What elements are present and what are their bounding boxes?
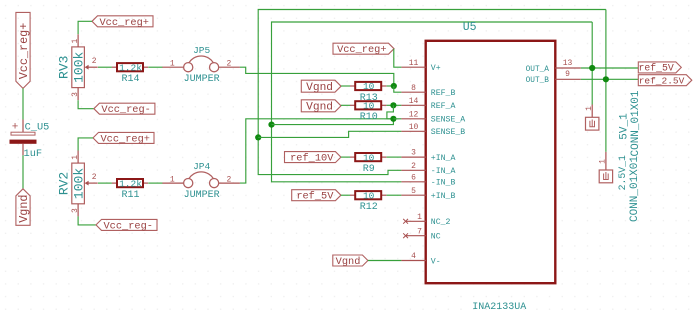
svg-text:14: 14 xyxy=(409,97,419,106)
pin 14 REF_A xyxy=(401,104,426,106)
node junction REF_B xyxy=(391,83,397,89)
node junction OUT_A xyxy=(589,65,595,71)
node junction SENSE_B tap xyxy=(255,134,261,140)
svg-text:100k: 100k xyxy=(71,168,86,199)
svg-text:3: 3 xyxy=(71,208,80,213)
wire xyxy=(22,155,24,189)
svg-text:REF_B: REF_B xyxy=(431,89,456,98)
wire xyxy=(22,88,24,119)
svg-text:R14: R14 xyxy=(121,74,139,85)
wire xyxy=(394,49,402,67)
wire xyxy=(78,100,94,109)
svg-text:12: 12 xyxy=(409,110,419,119)
wire (JP4 pin2 up to SENSE_A net) xyxy=(240,119,394,183)
svg-text:JP5: JP5 xyxy=(193,45,210,56)
connector 5V_1 CONN_01X01 xyxy=(591,105,593,120)
svg-text:7: 7 xyxy=(417,227,422,236)
pin 5 +IN_B xyxy=(401,194,426,196)
svg-text:R11: R11 xyxy=(121,190,139,201)
pin 11 V+ xyxy=(401,66,426,68)
wire xyxy=(368,260,402,262)
wire xyxy=(387,156,402,158)
svg-text:+IN_B: +IN_B xyxy=(431,192,456,201)
svg-text:1: 1 xyxy=(170,176,175,185)
wire to SENSE_B xyxy=(258,131,401,137)
svg-text:5V_1: 5V_1 xyxy=(619,113,631,140)
wire OUT_B to ref_2.5V xyxy=(581,78,639,80)
svg-text:RV2: RV2 xyxy=(57,172,72,195)
svg-text:1uF: 1uF xyxy=(24,148,43,160)
connector 2.5V_1 CONN_01X01 xyxy=(605,152,607,172)
wire xyxy=(387,194,402,196)
wire xyxy=(98,182,112,184)
wire OUT_B net xyxy=(258,10,606,175)
pin 7 NC (no connect) xyxy=(406,235,426,237)
wire xyxy=(148,182,162,184)
svg-text:Vcc_reg+: Vcc_reg+ xyxy=(337,44,386,56)
wire xyxy=(387,85,394,87)
global label Vgnd (V-) xyxy=(333,255,368,266)
pin 8 REF_B xyxy=(401,91,426,93)
global label Vcc_reg+ (vertical, far left) xyxy=(16,12,30,88)
svg-text:NC: NC xyxy=(431,233,441,242)
global label ref_2.5V (right) xyxy=(638,75,692,86)
svg-text:R9: R9 xyxy=(363,164,375,175)
node junction REF_A xyxy=(390,102,396,108)
wire xyxy=(98,66,112,68)
svg-text:OUT_B: OUT_B xyxy=(526,77,550,85)
svg-text:ref_2.5V: ref_2.5V xyxy=(639,75,685,86)
svg-text:JUMPER: JUMPER xyxy=(184,74,220,85)
svg-text:2: 2 xyxy=(226,60,231,69)
svg-text:Vgnd: Vgnd xyxy=(306,102,333,114)
wire (JP5 pin2 to REF_B net) xyxy=(240,67,394,86)
pin 1 NC_2 (no connect) xyxy=(406,220,426,222)
pin 9 OUT_B xyxy=(555,78,581,80)
svg-text:10: 10 xyxy=(409,123,419,132)
node junction SENSE_A xyxy=(390,116,396,122)
resistor R10 xyxy=(350,104,355,106)
resistor R11 xyxy=(112,182,117,184)
op-amp U5 INA2133UA body xyxy=(426,41,556,283)
svg-text:4: 4 xyxy=(411,252,416,261)
svg-text:3: 3 xyxy=(411,149,416,158)
svg-text:JUMPER: JUMPER xyxy=(184,190,220,201)
svg-text:8: 8 xyxy=(411,84,416,93)
svg-text:ref_5V: ref_5V xyxy=(639,63,674,74)
global label Vcc_reg- (lower) xyxy=(96,219,157,230)
potentiometer RV3 xyxy=(72,47,85,88)
svg-text:ref_5V: ref_5V xyxy=(296,191,334,203)
svg-text:-IN_B: -IN_B xyxy=(431,179,456,188)
svg-text:INA2133UA: INA2133UA xyxy=(472,302,526,313)
svg-text:10: 10 xyxy=(363,101,375,112)
svg-text:Vcc_reg+: Vcc_reg+ xyxy=(17,23,31,80)
wire OUT_A to SENSE_A junction xyxy=(272,119,394,125)
svg-text:Vcc_reg+: Vcc_reg+ xyxy=(101,133,150,145)
wire xyxy=(341,156,350,158)
global label Vgnd (R13) xyxy=(301,80,341,92)
svg-text:2: 2 xyxy=(92,173,97,182)
svg-text:U5: U5 xyxy=(463,21,477,34)
global label ref_5V xyxy=(292,190,341,201)
svg-text:CONN_01X01: CONN_01X01 xyxy=(629,156,641,222)
wire xyxy=(78,21,92,34)
svg-text:V-: V- xyxy=(431,257,441,266)
svg-text:10: 10 xyxy=(363,152,375,163)
svg-text:1: 1 xyxy=(170,60,175,69)
svg-text:2.5V_1: 2.5V_1 xyxy=(617,155,628,190)
svg-text:9: 9 xyxy=(565,70,570,79)
svg-text:1.2k: 1.2k xyxy=(119,178,142,189)
svg-text:ref_10V: ref_10V xyxy=(290,153,334,165)
pin 13 OUT_A xyxy=(555,67,581,69)
svg-text:1: 1 xyxy=(71,155,80,160)
svg-text:SENSE_A: SENSE_A xyxy=(431,116,465,125)
svg-text:Vgnd: Vgnd xyxy=(336,256,361,268)
svg-text:2: 2 xyxy=(411,162,416,171)
wire xyxy=(394,86,402,92)
wire OUT_A right vertical xyxy=(591,22,593,105)
svg-text:1: 1 xyxy=(599,159,608,164)
svg-text:R12: R12 xyxy=(360,202,378,213)
global label Vgnd (R10) xyxy=(301,100,341,112)
svg-text:RV3: RV3 xyxy=(57,56,72,79)
svg-text:2: 2 xyxy=(92,57,97,66)
svg-text:Vcc_reg-: Vcc_reg- xyxy=(104,220,153,232)
svg-text:OUT_A: OUT_A xyxy=(526,66,550,74)
svg-text:R10: R10 xyxy=(360,112,378,123)
wire OUT_A to ref_5V xyxy=(581,67,639,69)
global label Vcc_reg- (upper) xyxy=(94,103,155,114)
svg-text:1: 1 xyxy=(417,213,422,222)
wire xyxy=(341,85,350,87)
pin 2 -IN_A xyxy=(401,169,426,171)
svg-text:REF_A: REF_A xyxy=(431,102,456,111)
capacitor C_U5 xyxy=(22,120,24,133)
svg-text:SENSE_B: SENSE_B xyxy=(431,128,465,137)
wire xyxy=(341,104,350,106)
svg-text:Vcc_reg-: Vcc_reg- xyxy=(101,104,150,116)
svg-text:CONN_01X01: CONN_01X01 xyxy=(630,90,642,156)
resistor R12 xyxy=(350,194,355,196)
svg-text:+IN_A: +IN_A xyxy=(431,154,456,163)
wire OUT_A net xyxy=(272,22,593,182)
node junction OUT_B xyxy=(603,76,609,82)
svg-text:5: 5 xyxy=(411,187,416,196)
wire xyxy=(387,104,402,106)
svg-text:3: 3 xyxy=(71,92,80,97)
pin 4 V- xyxy=(401,260,426,262)
wire REF_A to SENSE_A zigzag xyxy=(387,105,394,119)
wire xyxy=(78,138,93,151)
potentiometer RV2 xyxy=(72,163,85,204)
wire xyxy=(78,216,96,225)
svg-text:6: 6 xyxy=(411,173,416,182)
pin 12 SENSE_A xyxy=(401,118,426,120)
pin 10 SENSE_B xyxy=(401,130,426,132)
jumper JP4 xyxy=(162,182,183,184)
svg-text:2: 2 xyxy=(226,176,231,185)
global label ref_5V (right) xyxy=(638,62,681,73)
wire OUT_B right vertical xyxy=(605,10,607,152)
pin 6 -IN_B xyxy=(401,181,426,183)
resistor R13 xyxy=(350,85,355,87)
svg-text:1: 1 xyxy=(585,106,594,111)
svg-text:NC_2: NC_2 xyxy=(431,218,451,227)
svg-text:Vcc_reg+: Vcc_reg+ xyxy=(100,17,149,29)
global label Vcc_reg+ (lower, pot RV2) xyxy=(93,132,154,143)
svg-text:Vgnd: Vgnd xyxy=(17,194,31,222)
svg-text:11: 11 xyxy=(409,59,419,68)
resistor R14 xyxy=(112,66,117,68)
global label Vcc_reg+ (top, pot RV3) xyxy=(92,16,153,27)
svg-text:10: 10 xyxy=(363,81,375,92)
svg-text:-IN_A: -IN_A xyxy=(431,167,456,176)
svg-text:1.2k: 1.2k xyxy=(119,62,142,73)
global label Vcc_reg+ (at V+ pin) xyxy=(333,43,394,54)
svg-text:13: 13 xyxy=(563,59,573,68)
svg-text:V+: V+ xyxy=(431,64,441,73)
svg-text:10: 10 xyxy=(363,190,375,201)
svg-text:1: 1 xyxy=(71,39,80,44)
wire xyxy=(148,66,162,68)
pin 3 +IN_A xyxy=(401,156,426,158)
svg-text:Vgnd: Vgnd xyxy=(306,82,333,94)
wire xyxy=(393,118,401,120)
node junction -IN_B tap xyxy=(268,122,274,128)
svg-text:100k: 100k xyxy=(71,51,86,82)
global label ref_10V xyxy=(285,152,341,163)
global label Vgnd (vertical, bottom left) xyxy=(16,189,30,226)
svg-text:JP4: JP4 xyxy=(193,161,210,172)
jumper JP5 xyxy=(162,66,183,68)
resistor R9 xyxy=(350,156,355,158)
wire xyxy=(341,194,350,196)
